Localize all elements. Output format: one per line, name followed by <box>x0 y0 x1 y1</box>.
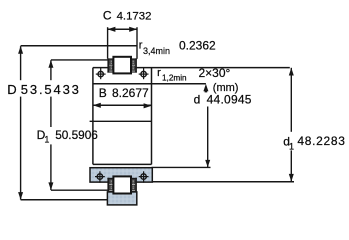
arrow d1 down <box>289 174 294 182</box>
bolt mark bottom right <box>139 171 149 182</box>
arrow d1 up <box>289 68 294 76</box>
svg-text:2×30°: 2×30° <box>199 66 231 80</box>
svg-text:1: 1 <box>289 142 294 152</box>
svg-text:48.2283: 48.2283 <box>297 134 345 148</box>
svg-text:B: B <box>99 86 107 100</box>
flange bottom extension line right <box>152 181 294 183</box>
inner ring block top <box>113 57 131 74</box>
seal stack bottom left lower <box>109 185 112 190</box>
arrow D up <box>18 46 23 54</box>
outer ring top cap right <box>131 58 137 59</box>
arrow d down <box>205 160 210 167</box>
seal stack right top <box>132 60 135 65</box>
shaft block right edge <box>151 68 153 165</box>
svg-text:4.1732: 4.1732 <box>117 10 152 22</box>
arrow D down <box>18 192 23 200</box>
svg-text:d: d <box>194 93 201 107</box>
svg-text:r: r <box>157 67 161 79</box>
svg-text:8.2677: 8.2677 <box>112 86 149 100</box>
shaft surface line (d top) <box>93 83 206 85</box>
outer ring bottom cap right <box>131 71 137 72</box>
arrow B left <box>93 103 101 108</box>
seal stack bottom left upper <box>109 179 112 184</box>
dimension line d1 vertical <box>290 68 292 132</box>
outer ring top cap left bottom <box>107 178 113 179</box>
arrow at d-surface line end <box>203 84 208 91</box>
D bottom extension line <box>21 199 108 201</box>
outer diameter top extension line <box>21 45 137 47</box>
outer ring left wall <box>107 58 109 72</box>
dimension line D vertical <box>20 46 22 80</box>
svg-text:53.5433: 53.5433 <box>21 82 81 97</box>
inner width line mid <box>90 120 152 122</box>
seal stack bottom right lower <box>132 185 135 190</box>
svg-text:1: 1 <box>44 135 49 145</box>
dimension line d vertical <box>207 107 209 168</box>
inner ring block bottom <box>113 176 131 193</box>
arrow B right <box>144 103 152 108</box>
svg-text:1,2min: 1,2min <box>162 74 187 83</box>
arrow C left <box>107 27 115 32</box>
svg-text:50.5906: 50.5906 <box>55 128 98 142</box>
D1 top extension line <box>51 59 108 61</box>
D1 bottom extension line <box>51 189 108 191</box>
outer ring bottom cap left bottom <box>107 191 113 192</box>
shaft abutment block (blue) bottom <box>107 192 136 205</box>
housing flange (blue) <box>90 168 152 182</box>
outer ring right wall <box>135 58 137 72</box>
arrow C right <box>129 27 137 32</box>
outer ring bottom cap right bottom <box>131 191 137 192</box>
svg-text:44.0945: 44.0945 <box>207 93 252 107</box>
seal stack right bottom <box>132 66 135 71</box>
seal stack left bottom <box>109 66 112 71</box>
seal stack left top <box>109 60 112 65</box>
seal stack bottom right upper <box>132 179 135 184</box>
arrow D1 up <box>48 60 53 68</box>
shaft block left edge <box>92 68 94 165</box>
outer ring top cap left <box>107 58 113 59</box>
dimension line D1 vertical <box>50 60 52 80</box>
flange top extension line right <box>152 166 211 168</box>
dimension line B <box>93 104 151 106</box>
svg-text:D: D <box>7 82 16 97</box>
bolt mark top right <box>139 68 149 79</box>
bolt mark top left <box>96 68 106 79</box>
outer ring left wall bottom <box>107 178 109 192</box>
shaft block bottom edge <box>93 163 152 165</box>
outer ring bottom cap left <box>107 71 113 72</box>
extension line C left <box>107 27 109 58</box>
shaft block top edge line (d1 top) <box>93 67 290 69</box>
dimension line C <box>108 28 137 30</box>
outer ring right wall bottom <box>135 178 137 192</box>
svg-text:3,4min: 3,4min <box>143 46 170 56</box>
svg-text:C: C <box>103 8 112 22</box>
extension line C right <box>136 27 138 59</box>
svg-text:0.2362: 0.2362 <box>179 39 216 53</box>
bolt mark bottom left <box>95 171 105 182</box>
arrow D1 down <box>48 182 53 190</box>
outer ring top cap right bottom <box>131 178 137 179</box>
